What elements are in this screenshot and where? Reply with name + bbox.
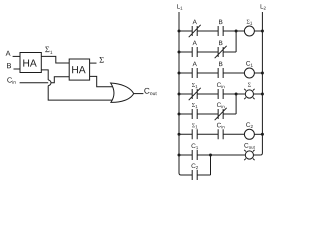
wire coil C1 to rail L2 [254,72,262,74]
coil Sigma1 rung 1 [244,26,254,36]
node dot rung3 left rail [178,72,181,75]
label Cin rung5 [217,102,225,108]
lamp Cout rung 7 [244,150,254,160]
node dot rung7 branch junction [209,154,212,157]
node Sigma1 label [45,47,52,54]
half adder U1 (HA) [20,53,41,73]
rail L2 right power rail [260,12,262,155]
wire rung2 up to rung1 [235,31,237,52]
wire carry1 to OR gate lower input [48,86,112,101]
label B rung1 [219,20,222,24]
wire B input [14,68,21,70]
label Cin rung6 [217,123,225,129]
contact A NO rung 3 [192,68,197,78]
node dot rung7 left rail [178,154,181,157]
label A rung1 [193,20,197,24]
wire carry2 from U2 to OR gate upper input [90,76,113,86]
wire hop carry1 over Cin [48,80,51,86]
wire Cout output [134,93,144,95]
rung 7 wire segments [179,154,245,156]
half adder U2 (HA) [69,59,89,80]
wire carry1 from U1 down [41,70,48,80]
contact B NO rung 3 [218,68,223,78]
label HA of U2 [72,66,85,73]
contact B NO rung 1 [218,26,223,36]
wire branch up to rung 7 [210,155,212,175]
coil C1 rung 3 [244,68,254,78]
wire A input [13,55,20,57]
rail L1 label [177,4,182,9]
rail L2 label [261,4,266,9]
wire sum output Sigma [90,62,97,64]
coil C2 rung 6 [244,129,254,139]
input label A [6,51,11,56]
input label Cin [7,77,15,83]
wire Cin to HA2 lower input [20,77,70,83]
wire sum Sigma1 from U1 to U2 [41,56,69,63]
rung 3 wire segments [179,72,244,74]
contact Sigma1 NC rung 4 [189,88,201,100]
label Sigma1 rung5 [192,103,197,108]
rung 1 wire segments [179,30,244,32]
node dot rung2 left rail [178,51,181,54]
rung 2 wire segments [179,51,236,53]
contact Sigma1 NO rung 5 [192,109,197,119]
lamp Sigma rung 4 [244,89,254,99]
node dot rung6 left rail [178,133,181,136]
node dot rung1 left rail [178,30,181,33]
wire lamp Cout to rail L2 [254,154,261,156]
contact Cin NC rung 5 [215,108,227,120]
label Cin rung4 [217,82,225,88]
node Sigma label [100,57,104,63]
label B rung3 [219,62,222,66]
label lamp Sigma [248,83,251,87]
label Sigma1 rung4 [192,83,197,88]
contact C2 NO branch [192,170,197,180]
node dot rung1 branch junction [235,30,238,33]
label coil C1 [246,61,253,67]
contact Cin NO rung 6 [218,129,223,139]
wire coil Sigma1 to rail L2 [254,30,262,32]
label A rung2 [193,41,197,45]
label HA of U1 [23,60,36,67]
input label B [7,63,11,68]
label A rung3 [193,62,197,66]
rung 5 wire segments [179,113,236,115]
rung 4 wire segments [179,93,245,95]
label C1 rung7 [191,143,198,149]
node Cout label [144,88,156,95]
contact Sigma1 NO rung 6 [192,129,197,139]
wire rung5 up to rung4 [235,94,237,114]
label Sigma1 rung6 [192,123,197,128]
label B rung2 [219,41,222,45]
node dot rung6 right rail [261,133,264,136]
node dot rung4 right rail [261,93,264,96]
node dot rung1 right rail [261,30,264,33]
label coil C2 [246,122,253,128]
wire coil C2 to rail L2 [254,133,262,135]
rung 6 wire segments [179,133,244,135]
label coil Sigma1 [247,20,252,25]
rail L1 left power rail [179,12,181,175]
label lamp Cout [244,143,254,149]
node dot rung3 right rail [261,72,264,75]
or-gate G1 [111,83,134,102]
contact Cin NO rung 4 [218,89,223,99]
wire lamp Sigma to rail L2 [254,93,263,95]
contact C1 NO rung 7 [192,150,197,160]
contact A NC rung 1 [189,25,201,37]
label C2 branch [191,163,198,169]
node dot rung4 branch junction [235,93,238,96]
contact B NC rung 2 [215,46,227,58]
node dot rung4 left rail [178,93,181,96]
contact A NO rung 2 [192,47,197,57]
branch C2 wire segments [181,174,211,176]
node dot rung5 left rail [178,113,181,116]
